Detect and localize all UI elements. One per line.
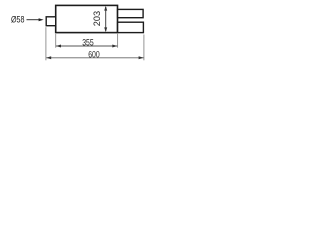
extension line 355 left <box>55 34 57 48</box>
dimension 203 line <box>105 7 107 31</box>
svg-text:600: 600 <box>88 49 100 59</box>
extension line 355 right <box>117 34 119 48</box>
dimension 355 line <box>56 45 117 47</box>
svg-text:Ø58: Ø58 <box>11 15 25 25</box>
extension line 600 right <box>143 35 145 61</box>
svg-text:203: 203 <box>92 11 102 26</box>
leader arrow to inlet <box>27 19 40 21</box>
dimension 600 line <box>46 57 143 59</box>
top outlet pipe <box>118 9 144 17</box>
inlet pipe stub <box>46 17 56 26</box>
extension line 600 left <box>45 27 47 60</box>
svg-text:355: 355 <box>82 37 94 47</box>
bottom outlet pipe <box>118 22 144 32</box>
muffler body <box>56 5 118 32</box>
